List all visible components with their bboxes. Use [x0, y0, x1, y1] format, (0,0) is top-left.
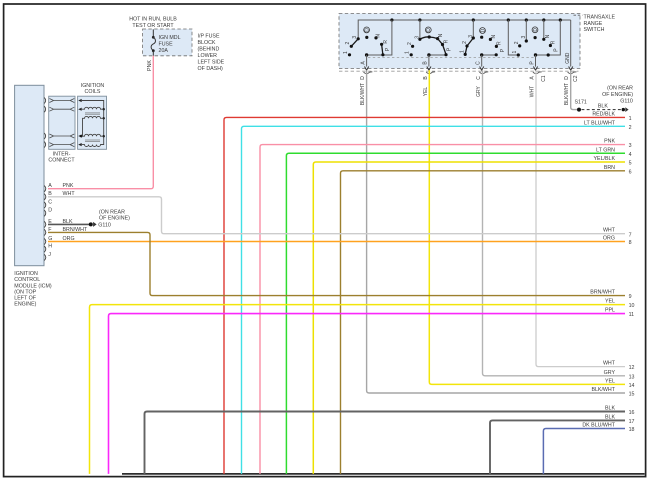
- wire BLK: ICM pin E to ground G110: [48, 219, 90, 225]
- svg-text:12: 12: [629, 365, 635, 371]
- switch common bus wire: [358, 20, 571, 39]
- svg-text:OF DASH): OF DASH): [198, 66, 224, 72]
- ICM pin J: [44, 252, 51, 261]
- svg-text:S171: S171: [575, 100, 587, 106]
- svg-text:6: 6: [629, 169, 632, 175]
- connector C1/C2 below switch: [339, 70, 579, 72]
- svg-text:D: D: [364, 28, 370, 32]
- ignition coils assembly: [78, 96, 107, 149]
- svg-text:BRN: BRN: [604, 165, 615, 171]
- svg-text:1: 1: [343, 51, 349, 54]
- switch pole 4 (pin P): [508, 20, 560, 57]
- ICM coil-feed pins (4 chevrons to interconnect): [44, 98, 45, 148]
- svg-text:OF ENGINE): OF ENGINE): [602, 92, 633, 98]
- svg-text:YEL: YEL: [605, 378, 615, 384]
- svg-text:BLK/WHT: BLK/WHT: [360, 83, 366, 105]
- transaxle range switch (dashed box): [339, 14, 580, 69]
- svg-text:IGNITION: IGNITION: [14, 271, 38, 277]
- svg-text:D: D: [426, 28, 432, 32]
- ground G110 (on rear of engine) at ICM pin E: [89, 209, 130, 228]
- svg-text:13: 13: [629, 374, 635, 380]
- svg-text:17: 17: [629, 419, 635, 425]
- svg-text:A: A: [48, 183, 52, 189]
- svg-text:(ON REAR: (ON REAR: [607, 86, 633, 92]
- svg-text:1: 1: [405, 51, 411, 54]
- svg-text:N: N: [438, 33, 444, 37]
- svg-text:20A: 20A: [159, 48, 169, 54]
- wire BRN: terminal 6: [341, 165, 632, 474]
- svg-text:TEST OR START: TEST OR START: [132, 23, 174, 29]
- svg-text:WHT: WHT: [603, 361, 616, 367]
- svg-text:RED/BLK: RED/BLK: [592, 111, 615, 117]
- switch pole 3 (pin C): [459, 20, 505, 57]
- svg-text:GRY: GRY: [476, 85, 482, 96]
- svg-text:LEFT SIDE: LEFT SIDE: [198, 59, 225, 65]
- interconnect terminal rows (4 bowtie lines): [49, 99, 74, 147]
- wire GRY: switch pin C to terminal 13: [476, 70, 635, 380]
- svg-text:3: 3: [521, 35, 527, 38]
- ICM pin H: [44, 244, 52, 253]
- ICM pin B: [44, 191, 52, 200]
- coil 1 windings: [82, 107, 104, 109]
- wire BLK/WHT: switch pin D to terminal 15: [360, 70, 634, 397]
- svg-text:WHT: WHT: [63, 191, 76, 197]
- svg-text:BRN/WHT: BRN/WHT: [590, 290, 615, 296]
- svg-text:DK BLU/WHT: DK BLU/WHT: [582, 423, 615, 429]
- svg-text:N: N: [491, 35, 497, 39]
- svg-text:PNK: PNK: [147, 60, 153, 71]
- svg-text:4: 4: [629, 152, 632, 158]
- switch pin C arrow: [476, 55, 484, 70]
- svg-text:OF ENGINE): OF ENGINE): [99, 216, 130, 222]
- svg-text:N: N: [545, 34, 551, 38]
- svg-text:J: J: [48, 252, 51, 258]
- svg-text:CONTROL: CONTROL: [14, 277, 40, 283]
- svg-text:(ON TOP: (ON TOP: [14, 289, 36, 295]
- svg-text:C2: C2: [573, 75, 579, 82]
- svg-text:COILS: COILS: [85, 89, 101, 95]
- svg-text:ORG: ORG: [603, 236, 615, 242]
- svg-text:TRANSAXLE: TRANSAXLE: [584, 15, 616, 21]
- svg-text:15: 15: [629, 392, 635, 398]
- svg-text:BLK/WHT: BLK/WHT: [564, 83, 570, 105]
- svg-text:3: 3: [352, 36, 358, 39]
- svg-text:H: H: [48, 244, 52, 250]
- svg-text:5: 5: [629, 161, 632, 167]
- svg-text:YEL: YEL: [605, 299, 615, 305]
- svg-text:GND: GND: [565, 52, 571, 64]
- ICM pin A: [44, 183, 52, 192]
- svg-text:(ON REAR: (ON REAR: [99, 209, 125, 215]
- wire BLK: S171 to ground G110: [582, 103, 622, 109]
- wire BRN/WHT: ICM pin F to terminal 9: [48, 227, 632, 300]
- ICM pin C: [44, 199, 52, 208]
- svg-text:PNK: PNK: [604, 139, 615, 145]
- label: TRANSAXLE RANGE SWITCH: [574, 15, 616, 34]
- svg-text:N: N: [375, 34, 381, 38]
- svg-text:R: R: [496, 41, 502, 45]
- svg-text:(BEHIND: (BEHIND: [198, 46, 220, 52]
- fuse block: I/P fuse block (behind lower left side of dash): [143, 29, 225, 72]
- svg-text:I/P FUSE: I/P FUSE: [198, 33, 220, 39]
- svg-text:16: 16: [629, 410, 635, 416]
- svg-text:2: 2: [514, 41, 520, 44]
- svg-text:C: C: [476, 76, 482, 80]
- svg-text:FUSE: FUSE: [159, 41, 174, 47]
- switch pole 2 (pin B): [405, 20, 453, 57]
- svg-text:R: R: [444, 39, 450, 43]
- svg-text:BLK: BLK: [605, 406, 615, 412]
- svg-text:SWITCH: SWITCH: [584, 27, 605, 33]
- ICM pin G: [44, 236, 52, 245]
- svg-text:BLK: BLK: [605, 414, 615, 420]
- svg-text:D: D: [564, 76, 570, 80]
- svg-text:1: 1: [512, 50, 518, 53]
- wire ORG: ICM pin G to terminal 8: [48, 236, 632, 247]
- svg-text:IGN MDL: IGN MDL: [159, 35, 181, 41]
- wire YEL: switch pin B to terminal 14: [423, 70, 635, 389]
- svg-text:7: 7: [629, 232, 632, 238]
- switch pole 1 (pin A): [343, 20, 392, 57]
- mechanical link (dashed) between poles: [368, 56, 534, 58]
- svg-text:INTER-: INTER-: [53, 151, 71, 157]
- svg-text:2: 2: [345, 41, 351, 44]
- svg-text:C: C: [48, 199, 52, 205]
- svg-text:ENGINE): ENGINE): [14, 302, 36, 308]
- svg-text:LT GRN: LT GRN: [596, 147, 615, 153]
- svg-text:8: 8: [629, 240, 632, 246]
- svg-text:2: 2: [629, 125, 632, 131]
- wire WHT: ICM pin B to terminal 7: [48, 191, 632, 238]
- ICM pin F: [44, 227, 52, 236]
- svg-text:RANGE: RANGE: [584, 21, 603, 27]
- svg-text:WHT: WHT: [530, 86, 536, 97]
- connector pin letters D B C A D: [360, 75, 579, 82]
- svg-text:BLOCK: BLOCK: [198, 40, 216, 46]
- switch GND pin: [565, 20, 573, 70]
- svg-text:YEL: YEL: [423, 87, 429, 97]
- svg-text:LT BLU/WHT: LT BLU/WHT: [584, 120, 616, 126]
- svg-text:1: 1: [459, 50, 465, 53]
- wire RED/BLK: terminal 1: [224, 111, 632, 474]
- svg-text:CONNECT: CONNECT: [48, 157, 75, 163]
- wire YEL: terminal 10: [90, 299, 635, 474]
- ICM pin E: [44, 219, 52, 228]
- wire WHT: switch pin A to terminal 12: [530, 70, 635, 371]
- svg-text:WHT: WHT: [603, 228, 616, 234]
- svg-text:3: 3: [468, 35, 474, 38]
- svg-text:C: C: [476, 61, 482, 65]
- svg-text:18: 18: [629, 427, 635, 433]
- bus junction dots: [390, 18, 562, 21]
- switch pin B arrow: [423, 55, 431, 70]
- svg-text:11: 11: [629, 312, 635, 318]
- svg-text:HOT IN RUN, BULB: HOT IN RUN, BULB: [129, 17, 177, 23]
- wire: off-page bus along bottom edge: [122, 473, 645, 475]
- svg-text:BRN/WHT: BRN/WHT: [63, 227, 88, 233]
- fuse: IGN MDL FUSE 20A: [151, 29, 181, 55]
- svg-text:14: 14: [629, 383, 635, 389]
- wire PNK: fuse to ICM pin A: [48, 56, 153, 189]
- svg-text:2: 2: [407, 42, 413, 45]
- svg-text:MODULE (ICM): MODULE (ICM): [14, 283, 52, 289]
- wire LT BLU/WHT: terminal 2: [242, 120, 632, 474]
- connector: interconnect: [48, 96, 75, 163]
- svg-text:D: D: [480, 28, 486, 32]
- svg-text:LOWER: LOWER: [198, 53, 218, 59]
- wire BLK/WHT: switch GND to splice S171: [564, 70, 577, 109]
- svg-text:3: 3: [415, 36, 421, 39]
- label: HOT IN RUN, BULB TEST OR START: [129, 17, 177, 30]
- svg-text:BLK: BLK: [63, 219, 73, 225]
- wire BLK: terminal 16: [145, 406, 635, 474]
- svg-text:G110: G110: [98, 223, 111, 229]
- wire BLK: terminal 17: [490, 414, 635, 474]
- svg-text:C1: C1: [541, 75, 547, 82]
- svg-text:PNK: PNK: [63, 183, 74, 189]
- ground G110 (on rear of engine) top right: [602, 86, 633, 112]
- svg-text:ORG: ORG: [63, 236, 75, 242]
- svg-text:9: 9: [629, 294, 632, 300]
- switch pin P arrow: [529, 55, 537, 70]
- svg-text:BLK: BLK: [598, 103, 608, 109]
- svg-text:D: D: [48, 208, 52, 214]
- coil 2 windings: [82, 134, 104, 136]
- wire DK BLU/WHT: terminal 18: [543, 423, 634, 474]
- ICM pin D: [44, 208, 52, 217]
- svg-text:D: D: [533, 28, 539, 32]
- connector terminals (5 chevrons): [364, 72, 577, 74]
- svg-text:10: 10: [629, 303, 635, 309]
- wire PNK: terminal 3: [260, 139, 632, 474]
- svg-text:1: 1: [629, 116, 632, 122]
- wire YEL/BLK: terminal 5: [313, 156, 631, 474]
- splice S171: [575, 100, 587, 112]
- wire LT GRN: terminal 4: [286, 147, 631, 474]
- svg-text:D: D: [360, 76, 366, 80]
- svg-text:2: 2: [462, 41, 468, 44]
- svg-text:R: R: [550, 40, 556, 44]
- label: IGNITION COILS: [81, 83, 105, 95]
- svg-text:3: 3: [629, 143, 632, 149]
- switch pin A arrow: [360, 55, 368, 70]
- svg-text:PPL: PPL: [605, 308, 615, 314]
- svg-text:YEL/BLK: YEL/BLK: [594, 156, 616, 162]
- svg-text:R: R: [383, 40, 389, 44]
- wire PPL: terminal 11: [109, 308, 635, 474]
- ignition control module ICM: [14, 85, 52, 307]
- svg-text:BLK/WHT: BLK/WHT: [591, 387, 615, 393]
- svg-text:GRY: GRY: [604, 370, 616, 376]
- svg-text:G110: G110: [620, 99, 633, 105]
